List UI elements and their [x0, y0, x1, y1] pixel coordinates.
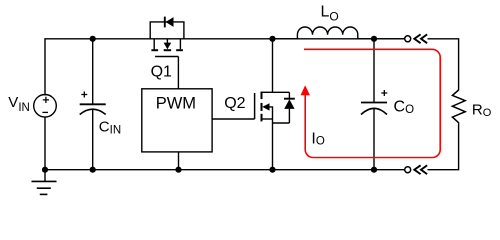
wire Q2 drain to switch node [272, 39, 274, 93]
svg-text:Q2: Q2 [224, 95, 245, 112]
wire top-right (output terminal to RO top) [428, 39, 459, 91]
wire Q2 source to ground rail [272, 119, 274, 170]
svg-text:RO: RO [472, 101, 492, 119]
output terminal top (open circle with double chevron) [405, 34, 427, 43]
wire CIN top lead [92, 39, 94, 104]
wire top rail (VIN+ to switch node to LO) [45, 39, 405, 96]
transistor Q1 (high-side MOSFET on top rail) [151, 39, 183, 57]
wire bottom ground rail [45, 169, 405, 171]
svg-text:CO: CO [394, 98, 415, 115]
resistor RO [452, 90, 465, 123]
svg-text:VIN: VIN [8, 94, 30, 114]
wire PWM to Q2 gate [212, 118, 255, 120]
junction Q2 source node [269, 167, 275, 173]
wire CO bottom lead [373, 108, 375, 169]
diode D1 (Q1 body diode, anode right / cathode left) [150, 17, 184, 39]
wire VIN negative lead [44, 117, 46, 170]
wire CIN bottom lead [92, 109, 94, 170]
ground [32, 170, 57, 195]
capacitor CO (polarized) [361, 90, 387, 115]
junction CO bottom node [371, 167, 377, 173]
transistor Q2 (low-side MOSFET) [255, 92, 273, 122]
current loop IO (red path with arrow) [301, 49, 441, 157]
svg-text:Q1: Q1 [151, 64, 172, 81]
svg-text:LO: LO [321, 4, 339, 24]
wire bottom-right (RO bottom to return terminal) [428, 123, 459, 169]
PWM controller U1 [142, 89, 212, 152]
junction PWM ground node [175, 167, 181, 173]
junction CO top node [371, 36, 377, 42]
wire Q1 gate to PWM [177, 57, 179, 89]
voltage source VIN [34, 95, 57, 118]
wire PWM ground lead [178, 152, 180, 170]
junction CIN top node [90, 36, 96, 42]
junction CIN bottom node [90, 167, 96, 173]
svg-text:IO: IO [311, 131, 324, 148]
wire CO top lead [373, 39, 375, 103]
junction switch node (Q2 drain) [269, 36, 275, 42]
diode D2 (Q2 body diode, cathode up) [273, 92, 295, 123]
inductor LO [273, 27, 405, 39]
junction VIN ground node [42, 167, 48, 173]
capacitor CIN (polarized) [80, 92, 106, 115]
output terminal bottom (open circle with double chevron) [405, 165, 427, 174]
svg-text:PWM: PWM [156, 94, 196, 112]
svg-text:CIN: CIN [99, 119, 121, 137]
